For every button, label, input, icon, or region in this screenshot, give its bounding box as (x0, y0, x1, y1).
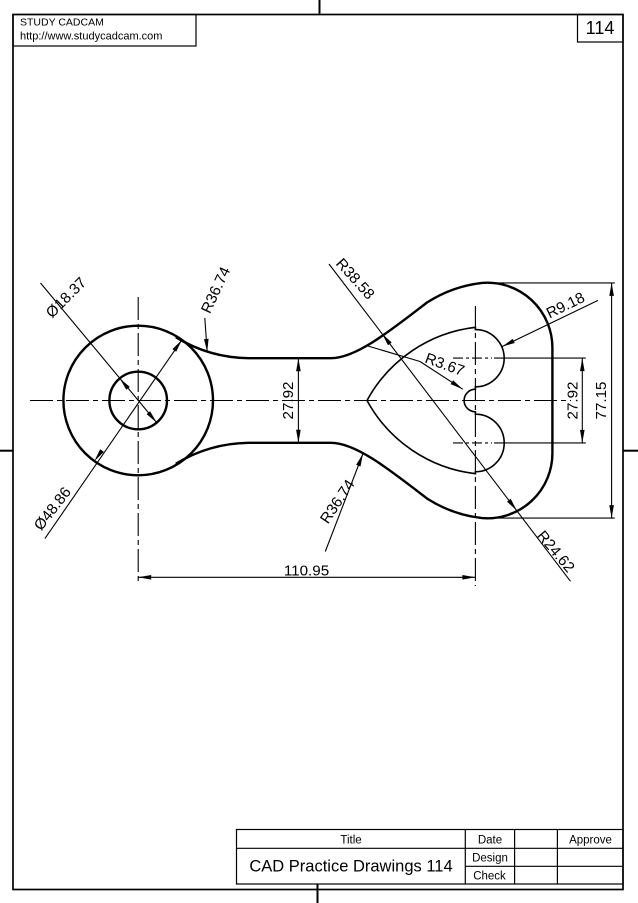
svg-text:Check: Check (473, 871, 506, 883)
svg-text:R3.67: R3.67 (423, 350, 467, 380)
svg-text:Design: Design (472, 853, 508, 865)
svg-text:R24.62: R24.62 (533, 528, 578, 576)
centerline top lobe (453, 357, 492, 359)
heart cutout (367, 327, 504, 473)
leader diameter 18.37 (41, 283, 157, 423)
svg-text:27.92: 27.92 (565, 381, 582, 419)
extension lines 77.15 (482, 282, 615, 284)
dimension 27.92 left (297, 358, 299, 443)
leader diameter 48.86 (45, 340, 182, 539)
header logo box (13, 15, 196, 47)
leader R9.18 (502, 300, 598, 346)
dimension 110.95 (138, 576, 475, 578)
top center tick (319, 0, 321, 14)
centerline vertical left circle (137, 297, 139, 584)
svg-text:Title: Title (340, 835, 361, 847)
svg-text:CAD Practice Drawings 114: CAD Practice Drawings 114 (249, 858, 452, 876)
leader R36.74 top (205, 318, 207, 352)
inner hole (109, 372, 167, 430)
leader line R38.58 / R24.62 (329, 264, 571, 581)
svg-text:R9.18: R9.18 (544, 289, 588, 322)
outer boss circle (63, 326, 213, 476)
svg-text:27.92: 27.92 (280, 381, 297, 419)
svg-text:R38.58: R38.58 (332, 255, 377, 303)
page number box (578, 15, 624, 43)
extension lines 27.92 right (494, 357, 586, 359)
centerline vertical head (474, 306, 476, 586)
svg-text:STUDY CADCAM: STUDY CADCAM (20, 17, 104, 29)
svg-text:77.15: 77.15 (593, 381, 610, 419)
svg-text:Approve: Approve (569, 835, 612, 847)
svg-text:110.95: 110.95 (284, 562, 329, 579)
leader R36.74 bottom (325, 454, 363, 552)
dimension 77.15 (611, 283, 613, 518)
dimension 27.92 right (581, 358, 583, 443)
centerline horizontal axis (30, 400, 571, 402)
centerline bottom lobe (453, 442, 492, 444)
svg-text:114: 114 (586, 18, 615, 38)
left center tick (0, 450, 13, 452)
svg-text:http://www.studycadcam.com: http://www.studycadcam.com (20, 31, 162, 43)
right center tick (623, 450, 638, 452)
svg-text:Date: Date (478, 835, 502, 847)
bottom center tick (317, 884, 319, 903)
leader R3.67 (368, 346, 420, 362)
title block (237, 830, 624, 885)
svg-text:R36.74: R36.74 (198, 264, 234, 316)
part outline (176, 283, 553, 519)
